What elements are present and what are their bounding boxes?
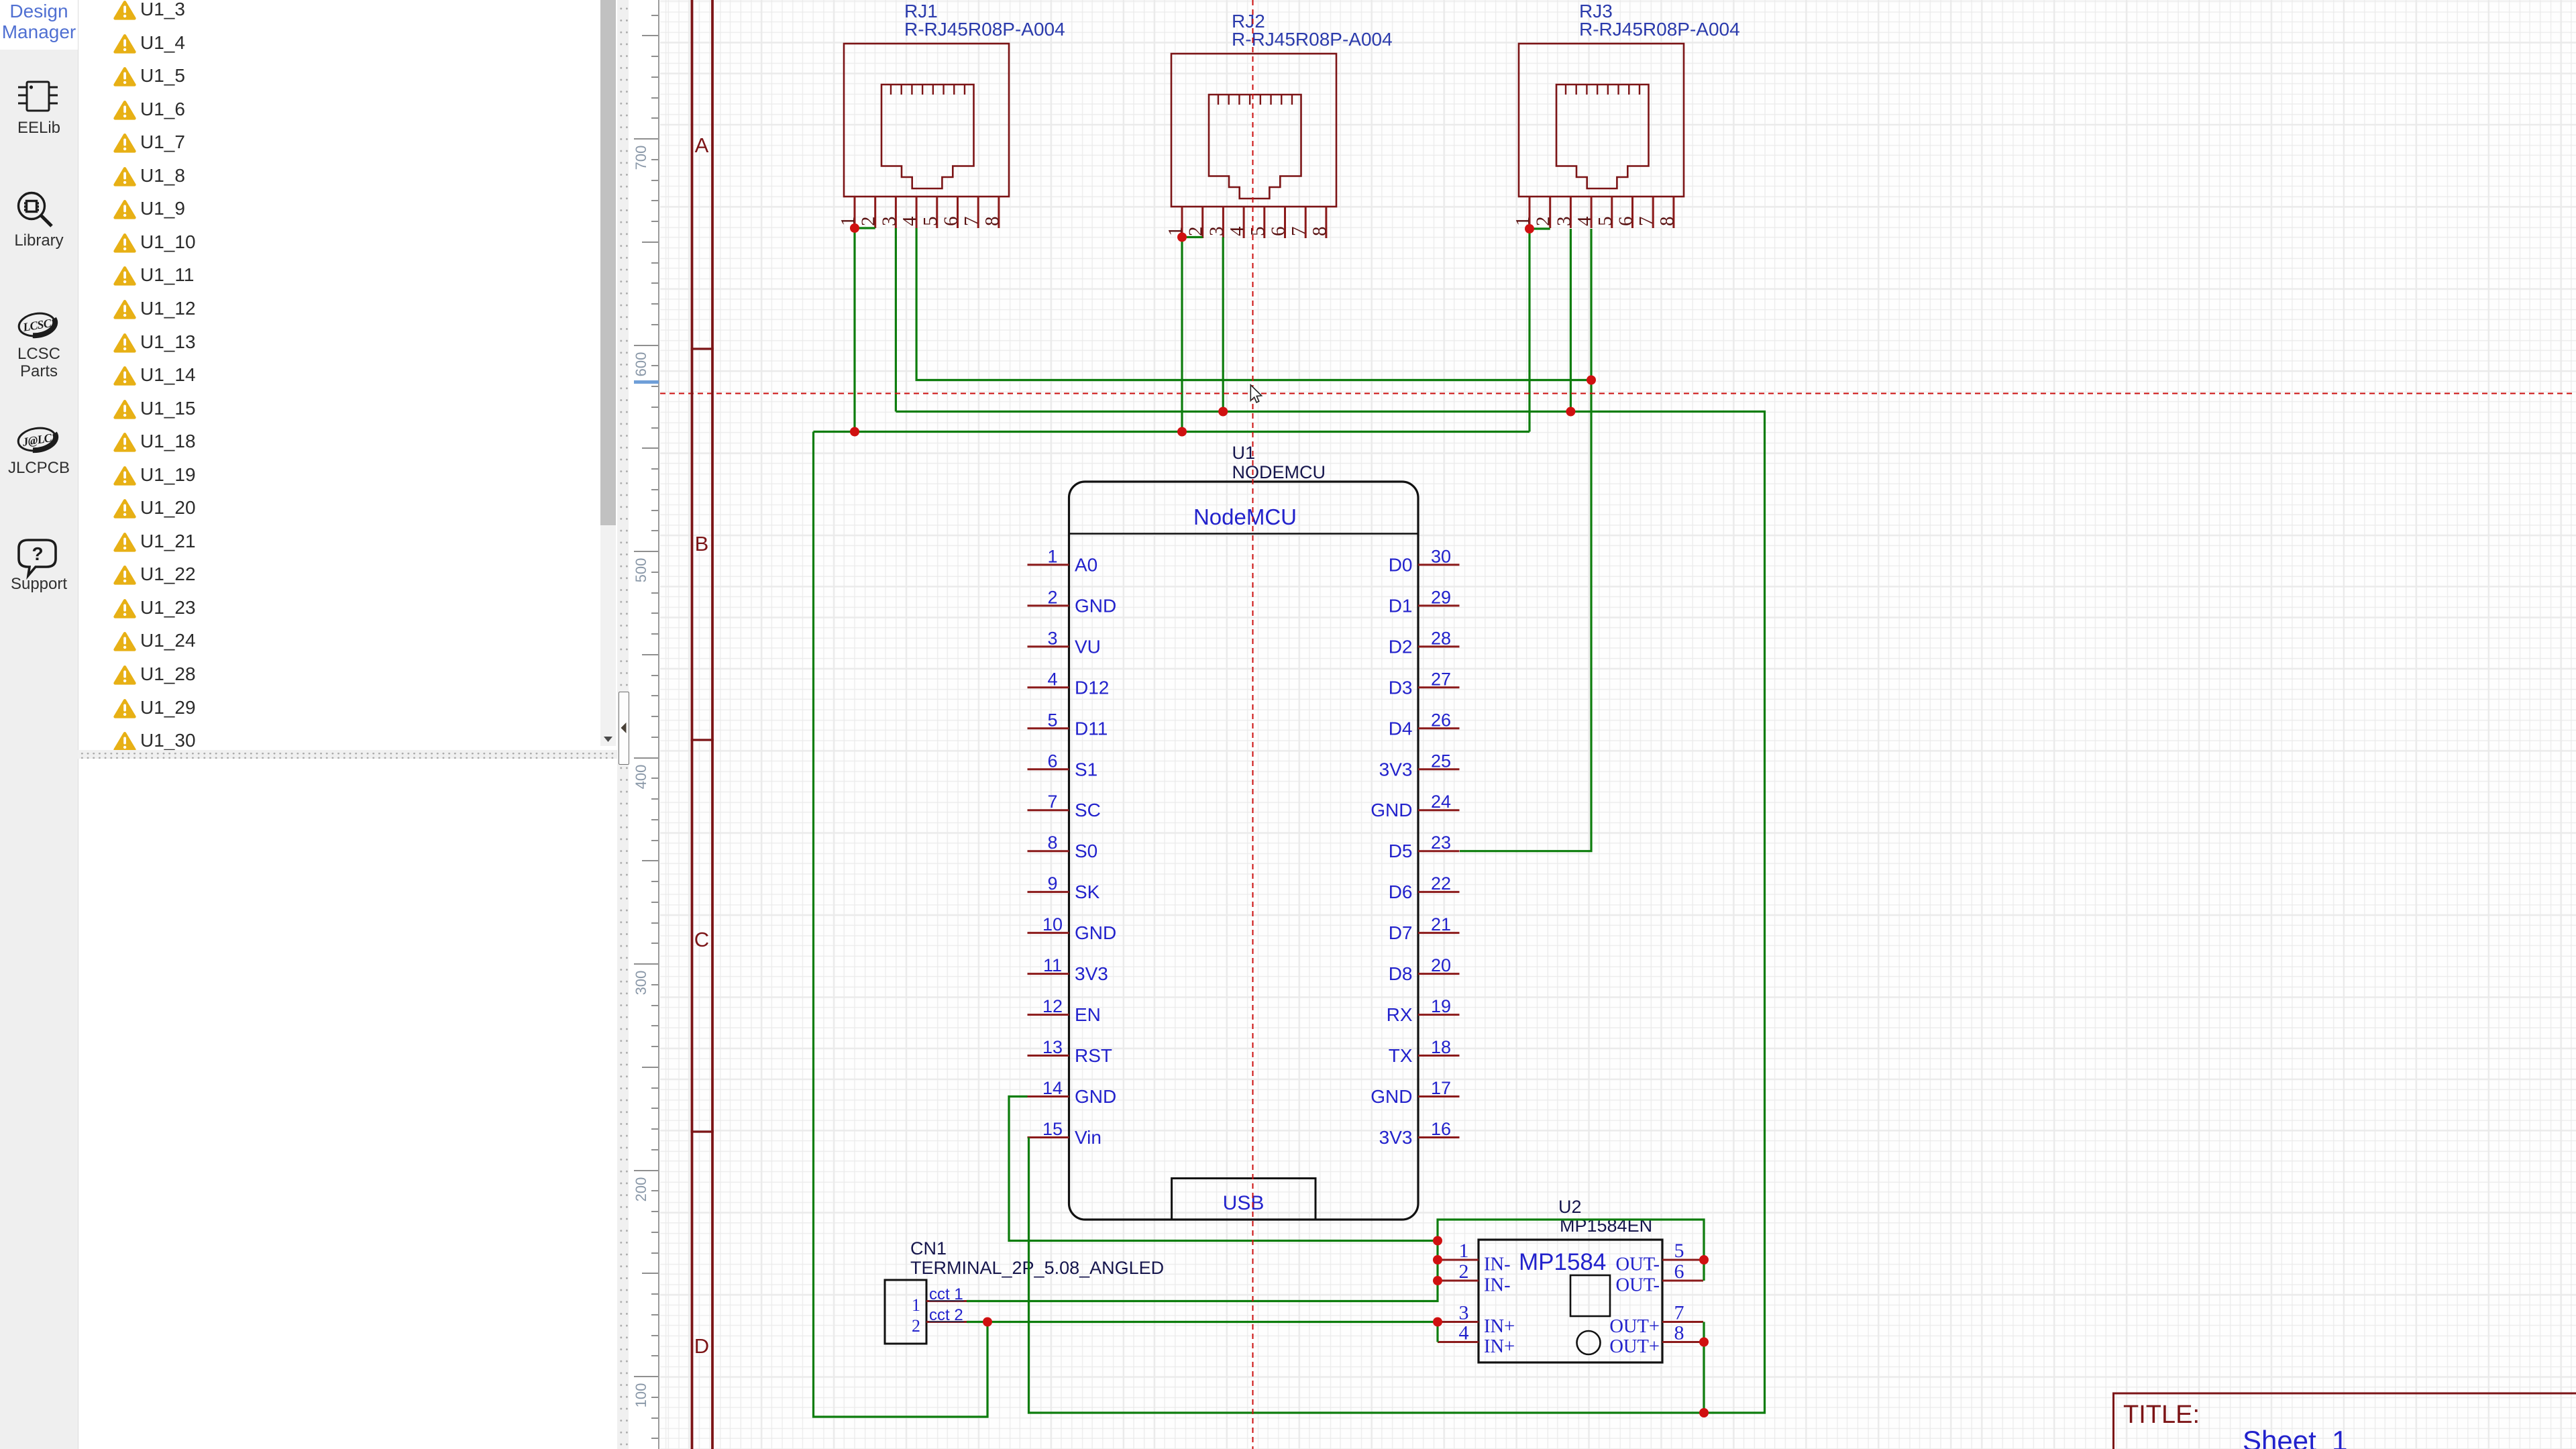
RJ2 pin 1 xyxy=(1165,207,1186,238)
svg-text:U1: U1 xyxy=(1232,443,1256,463)
svg-text:22: 22 xyxy=(1431,873,1451,894)
svg-text:8: 8 xyxy=(1047,833,1057,853)
U1 pin 29 D1 xyxy=(1418,604,1460,606)
svg-text:IN-: IN- xyxy=(1484,1275,1511,1296)
IC U2 MP1584EN (buck converter) xyxy=(1438,1197,1703,1362)
svg-text:6: 6 xyxy=(941,217,962,227)
svg-text:5: 5 xyxy=(1595,217,1616,227)
svg-text:S0: S0 xyxy=(1075,841,1097,861)
svg-text:7: 7 xyxy=(1288,227,1309,237)
junction RJ3 pins 1-2 xyxy=(1525,224,1534,233)
wire RJ3.1 down xyxy=(1528,229,1530,432)
U1 pin 30 D0 xyxy=(1418,563,1460,566)
svg-text:GND: GND xyxy=(1371,1086,1412,1107)
svg-text:9: 9 xyxy=(1047,873,1057,894)
U2 pin 6 OUT- xyxy=(1662,1280,1703,1282)
svg-text:15: 15 xyxy=(1042,1119,1063,1139)
svg-text:RX: RX xyxy=(1387,1004,1413,1025)
junction U2 pin 3 / cct2 xyxy=(1433,1318,1442,1327)
CN1 pin 2 xyxy=(926,1321,967,1323)
U2 pin 8 OUT+ xyxy=(1662,1341,1703,1343)
IC U1 NODEMCU (NodeMCU module) xyxy=(1028,443,1460,1220)
U1 pin 13 RST xyxy=(1028,1055,1069,1057)
svg-text:24: 24 xyxy=(1431,792,1451,812)
svg-text:8: 8 xyxy=(1656,217,1678,227)
cursor crosshair vertical xyxy=(1252,0,1254,1449)
svg-text:10: 10 xyxy=(1042,914,1063,934)
svg-text:29: 29 xyxy=(1431,587,1451,607)
wire RJ1.1 down xyxy=(853,228,855,432)
svg-text:5: 5 xyxy=(1047,710,1057,730)
connector RJ1 R-RJ45R08P-A004 xyxy=(844,1,1065,197)
svg-text:D11: D11 xyxy=(1075,718,1108,739)
svg-text:11: 11 xyxy=(1043,955,1062,975)
wire RJ1.3 down xyxy=(895,228,897,412)
junction RJ1.1 to ground bus xyxy=(850,427,859,437)
RJ2 pin 6 xyxy=(1268,207,1289,238)
U1 pin 20 D8 xyxy=(1418,973,1460,975)
svg-text:4: 4 xyxy=(1047,669,1057,689)
svg-text:D3: D3 xyxy=(1389,677,1413,698)
wire RJ1.2 to RJ1.1 xyxy=(855,227,875,229)
svg-text:8: 8 xyxy=(981,217,1003,227)
wire RJ ground bus xyxy=(814,431,1530,433)
svg-text:7: 7 xyxy=(961,217,982,227)
svg-text:S1: S1 xyxy=(1075,759,1097,780)
RJ3 pin 2 xyxy=(1533,197,1554,228)
svg-text:5: 5 xyxy=(920,217,941,227)
RJ3 pin 4 xyxy=(1574,197,1595,228)
U1 pin 19 RX xyxy=(1418,1014,1460,1016)
U1 pin 22 D6 xyxy=(1418,891,1460,893)
svg-text:Sheet_1: Sheet_1 xyxy=(2243,1425,2347,1449)
svg-text:17: 17 xyxy=(1431,1078,1451,1098)
canvas grid xyxy=(660,0,2576,1449)
connector RJ3 R-RJ45R08P-A004 xyxy=(1519,1,1740,197)
wire RJ2.3 down xyxy=(1222,237,1224,412)
wire RJ3.2 to RJ3.1 xyxy=(1529,227,1550,229)
U1 pin 28 D2 xyxy=(1418,645,1460,647)
svg-text:OUT+: OUT+ xyxy=(1609,1336,1660,1357)
svg-text:6: 6 xyxy=(1674,1260,1684,1283)
wire ground bus down to cct2 xyxy=(814,432,988,1417)
svg-text:D0: D0 xyxy=(1389,554,1413,575)
RJ1 pin 6 xyxy=(941,197,962,228)
RJ2 pin 5 xyxy=(1247,207,1269,238)
svg-text:13: 13 xyxy=(1042,1037,1063,1057)
svg-text:2: 2 xyxy=(1533,217,1554,227)
U1 pin 11 3V3 xyxy=(1028,973,1069,975)
U1 pin 6 S1 xyxy=(1028,768,1069,770)
RJ2 pin 8 xyxy=(1309,207,1330,238)
svg-text:18: 18 xyxy=(1431,1037,1451,1057)
svg-text:R-RJ45R08P-A004: R-RJ45R08P-A004 xyxy=(904,19,1065,40)
svg-text:27: 27 xyxy=(1431,669,1451,689)
svg-text:D7: D7 xyxy=(1389,922,1413,943)
wire cct2 to IN+ xyxy=(967,1321,1438,1323)
svg-text:OUT-: OUT- xyxy=(1616,1275,1660,1296)
svg-text:D: D xyxy=(694,1334,709,1358)
svg-text:GND: GND xyxy=(1075,1086,1116,1107)
svg-text:3: 3 xyxy=(1459,1302,1469,1324)
U1 pin 12 EN xyxy=(1028,1014,1069,1016)
svg-text:TX: TX xyxy=(1389,1045,1413,1066)
wire IN+ pins join xyxy=(1436,1322,1438,1342)
U1 pin 9 SK xyxy=(1028,891,1069,893)
svg-text:28: 28 xyxy=(1431,628,1451,648)
vertical ruler xyxy=(0,0,659,1449)
svg-text:5: 5 xyxy=(1247,227,1269,237)
svg-text:SC: SC xyxy=(1075,800,1101,820)
svg-text:3V3: 3V3 xyxy=(1379,759,1413,780)
RJ2 pin 7 xyxy=(1288,207,1309,238)
U1 pin 2 GND xyxy=(1028,604,1069,606)
junction GND wire to IN- riser xyxy=(1433,1236,1442,1246)
U1 pin 3 VU xyxy=(1028,645,1069,647)
svg-text:8: 8 xyxy=(1674,1322,1684,1344)
wire cct1 / IN- / OUT- net xyxy=(967,1220,1704,1301)
RJ1 pin 3 xyxy=(878,197,900,228)
svg-text:16: 16 xyxy=(1431,1119,1451,1139)
junction U2 pin 5 xyxy=(1699,1255,1709,1265)
wire RJ1.4 to bus D5 xyxy=(916,228,1591,380)
U1 pin 15 Vin xyxy=(1028,1136,1069,1138)
svg-text:4: 4 xyxy=(1459,1322,1469,1344)
svg-text:3: 3 xyxy=(878,217,900,227)
svg-text:7: 7 xyxy=(1635,217,1657,227)
icon sidebar xyxy=(0,0,78,1449)
U1 pin 10 GND xyxy=(1028,932,1069,934)
svg-text:OUT-: OUT- xyxy=(1616,1254,1660,1275)
svg-text:NODEMCU: NODEMCU xyxy=(1232,462,1326,482)
wire Vin power bus xyxy=(896,412,1764,1413)
U2 pin 1 IN- xyxy=(1438,1259,1479,1261)
svg-text:12: 12 xyxy=(1042,996,1063,1016)
RJ1 pin 1 xyxy=(837,197,859,228)
svg-text:3: 3 xyxy=(1047,628,1057,648)
svg-text:TITLE:: TITLE: xyxy=(2123,1401,2200,1429)
U1 pin 5 D11 xyxy=(1028,727,1069,729)
U2 pin 7 OUT+ xyxy=(1662,1321,1703,1323)
junction RJ1 pins 1-2 xyxy=(850,223,859,233)
RJ1 pin 2 xyxy=(858,197,879,228)
warning list xyxy=(113,0,137,21)
U1 pin 14 GND xyxy=(1028,1095,1069,1097)
svg-text:A: A xyxy=(695,133,709,157)
wire RJ3.3 down xyxy=(1570,229,1572,412)
RJ1 pin 8 xyxy=(981,197,1003,228)
svg-text:OUT+: OUT+ xyxy=(1609,1316,1660,1337)
svg-text:6: 6 xyxy=(1615,217,1637,227)
svg-text:D2: D2 xyxy=(1389,636,1413,657)
svg-text:23: 23 xyxy=(1431,833,1451,853)
U1 pin 24 GND xyxy=(1418,809,1460,811)
svg-text:D12: D12 xyxy=(1075,677,1109,698)
svg-text:3V3: 3V3 xyxy=(1379,1127,1413,1148)
junction OUT+ to Vin bus xyxy=(1699,1408,1709,1417)
svg-text:4: 4 xyxy=(899,216,920,226)
svg-text:2: 2 xyxy=(1459,1260,1469,1283)
junction U2 pin 8 xyxy=(1699,1338,1709,1347)
svg-text:5: 5 xyxy=(1674,1240,1684,1262)
svg-text:3V3: 3V3 xyxy=(1075,963,1108,984)
svg-text:NodeMCU: NodeMCU xyxy=(1193,504,1297,529)
U1 pin 27 D3 xyxy=(1418,686,1460,688)
RJ2 pin 2 xyxy=(1185,207,1207,238)
RJ3 pin 8 xyxy=(1656,197,1678,228)
svg-text:4: 4 xyxy=(1226,226,1248,236)
splitter divider xyxy=(617,0,629,1449)
U2 pin 5 OUT- xyxy=(1662,1259,1703,1261)
svg-text:D8: D8 xyxy=(1389,963,1413,984)
cursor crosshair horizontal xyxy=(660,393,2576,394)
wire U1 GND to IN- xyxy=(1009,1097,1438,1241)
RJ3 pin 6 xyxy=(1615,197,1637,228)
wire RJ2.1 down xyxy=(1181,237,1183,432)
svg-text:7: 7 xyxy=(1674,1302,1684,1324)
svg-text:CN1: CN1 xyxy=(910,1238,947,1258)
svg-text:EN: EN xyxy=(1075,1004,1101,1025)
junction RJ3.3 to power bus xyxy=(1566,407,1575,417)
svg-text:A0: A0 xyxy=(1075,554,1097,575)
svg-text:6: 6 xyxy=(1268,227,1289,237)
svg-text:20: 20 xyxy=(1431,955,1451,975)
svg-text:D6: D6 xyxy=(1389,881,1413,902)
svg-text:B: B xyxy=(695,532,709,555)
svg-text:1: 1 xyxy=(912,1295,920,1315)
svg-text:IN+: IN+ xyxy=(1484,1336,1515,1357)
svg-text:21: 21 xyxy=(1431,914,1451,934)
U2 pin 3 IN+ xyxy=(1438,1321,1479,1323)
svg-text:RST: RST xyxy=(1075,1045,1112,1066)
svg-text:2: 2 xyxy=(912,1316,920,1336)
junction RJ2 pins 1-2 xyxy=(1177,233,1187,242)
svg-text:3: 3 xyxy=(1205,227,1227,237)
svg-text:IN+: IN+ xyxy=(1484,1316,1515,1337)
U1 pin 25 3V3 xyxy=(1418,768,1460,770)
CN1 pin 1 xyxy=(926,1300,967,1302)
connector RJ2 R-RJ45R08P-A004 xyxy=(1171,11,1393,207)
svg-text:7: 7 xyxy=(1047,792,1057,812)
svg-text:25: 25 xyxy=(1431,751,1451,771)
wire OUT+ pins down xyxy=(1703,1322,1705,1413)
RJ1 pin 7 xyxy=(961,197,982,228)
svg-text:C: C xyxy=(694,928,709,951)
junction cct2 tap xyxy=(983,1318,992,1327)
RJ2 pin 3 xyxy=(1205,207,1227,238)
svg-text:1: 1 xyxy=(1459,1240,1469,1262)
svg-text:?: ? xyxy=(32,543,43,564)
svg-text:TERMINAL_2P_5.08_ANGLED: TERMINAL_2P_5.08_ANGLED xyxy=(910,1258,1164,1278)
svg-text:30: 30 xyxy=(1431,546,1451,566)
junction U2 pin 1 xyxy=(1433,1255,1442,1265)
svg-text:U2: U2 xyxy=(1558,1197,1582,1217)
svg-text:6: 6 xyxy=(1047,751,1057,771)
U2 pin 4 IN+ xyxy=(1438,1341,1479,1343)
svg-text:R-RJ45R08P-A004: R-RJ45R08P-A004 xyxy=(1579,19,1740,40)
svg-text:19: 19 xyxy=(1431,996,1451,1016)
svg-text:GND: GND xyxy=(1075,922,1116,943)
svg-text:4: 4 xyxy=(1574,216,1595,226)
U2 pin 2 IN- xyxy=(1438,1280,1479,1282)
svg-text:26: 26 xyxy=(1431,710,1451,730)
svg-text:SK: SK xyxy=(1075,881,1100,902)
RJ3 pin 3 xyxy=(1553,197,1574,228)
svg-text:VU: VU xyxy=(1075,636,1101,657)
svg-text:14: 14 xyxy=(1042,1078,1063,1098)
wire RJ2.2 to RJ2.1 xyxy=(1182,236,1203,238)
svg-text:8: 8 xyxy=(1309,227,1330,237)
svg-text:1: 1 xyxy=(1047,546,1057,566)
horizontal dotted strip xyxy=(78,750,617,759)
svg-text:2: 2 xyxy=(858,217,879,227)
svg-text:Vin: Vin xyxy=(1075,1127,1102,1148)
svg-text:2: 2 xyxy=(1047,587,1057,607)
U1 pin 21 D7 xyxy=(1418,932,1460,934)
junction RJ2.1 to ground bus xyxy=(1177,427,1187,437)
U1 pin 4 D12 xyxy=(1028,686,1069,688)
U1 pin 17 GND xyxy=(1418,1095,1460,1097)
RJ3 pin 7 xyxy=(1635,197,1657,228)
svg-text:MP1584: MP1584 xyxy=(1519,1249,1606,1275)
U1 pin 23 D5 xyxy=(1418,850,1460,852)
RJ1 pin 5 xyxy=(920,197,941,228)
svg-text:IN-: IN- xyxy=(1484,1254,1511,1275)
svg-text:2: 2 xyxy=(1185,227,1207,237)
U1 pin 18 TX xyxy=(1418,1055,1460,1057)
RJ1 pin 4 xyxy=(899,197,920,228)
RJ3 pin 1 xyxy=(1512,197,1534,228)
U1 pin 8 S0 xyxy=(1028,850,1069,852)
U1 pin 1 A0 xyxy=(1028,563,1069,566)
U1 pin 16 3V3 xyxy=(1418,1136,1460,1138)
mouse cursor xyxy=(1250,385,1261,402)
svg-text:USB: USB xyxy=(1223,1192,1265,1214)
svg-text:GND: GND xyxy=(1075,595,1116,616)
title block xyxy=(2112,1393,2576,1395)
junction RJ2.3 to power bus xyxy=(1218,407,1228,417)
U1 pin 26 D4 xyxy=(1418,727,1460,729)
left UI xyxy=(0,0,617,1449)
RJ3 pin 5 xyxy=(1595,197,1616,228)
svg-text:R-RJ45R08P-A004: R-RJ45R08P-A004 xyxy=(1232,29,1393,50)
RJ2 pin 4 xyxy=(1226,207,1248,238)
svg-text:D4: D4 xyxy=(1389,718,1413,739)
wire RJ3.4 / D5 net xyxy=(1460,229,1591,851)
svg-text:GND: GND xyxy=(1371,800,1412,820)
svg-text:3: 3 xyxy=(1553,217,1574,227)
svg-text:D5: D5 xyxy=(1389,841,1413,861)
junction U2 pin 2 xyxy=(1433,1276,1442,1285)
sheet frame border lines xyxy=(691,0,694,1449)
list vertical scrollbar xyxy=(600,0,616,746)
junction RJ3.4 / D5 bus xyxy=(1587,376,1596,385)
connector CN1 TERMINAL_2P_5.08_ANGLED xyxy=(885,1238,1164,1344)
svg-text:D1: D1 xyxy=(1389,595,1413,616)
U1 pin 7 SC xyxy=(1028,809,1069,811)
